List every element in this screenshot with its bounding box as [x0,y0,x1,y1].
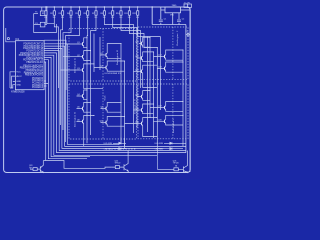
svg-text:Q11: Q11 [135,42,138,44]
svg-text:TIP120: TIP120 [173,163,179,165]
svg-text:TIP120: TIP120 [115,163,121,165]
svg-text:LED GRN: LED GRN [155,143,164,145]
svg-text:J1 +9V: J1 +9V [184,2,191,4]
svg-text:LED RED: LED RED [155,149,164,151]
svg-text:LED RED: LED RED [104,149,113,151]
svg-text:C4: C4 [186,31,188,33]
svg-text:Sink: Sink [104,95,106,101]
svg-text:Darlington C: Darlington C [176,30,179,45]
svg-text:C1: C1 [164,19,166,21]
svg-text:PB5/SCK/PCINT5: PB5/SCK/PCINT5 [25,75,44,77]
svg-text:ATMEGA328: ATMEGA328 [11,91,25,94]
svg-text:PC4/ADC4: PC4/ADC4 [32,86,44,89]
svg-text:Darlington B: Darlington B [116,50,119,65]
svg-text:VCC: VCC [16,72,21,74]
svg-text:LED GRN: LED GRN [104,143,113,145]
svg-text:GND: GND [16,81,21,83]
svg-text:ULN2803AN 8X: ULN2803AN 8X [105,72,122,75]
svg-text:7805: 7805 [172,5,178,7]
svg-text:Darlington D: Darlington D [74,112,77,127]
svg-text:GND: GND [16,84,21,86]
svg-text:Darlington E: Darlington E [134,99,137,114]
svg-text:IC1: IC1 [16,38,20,41]
svg-text:Darlington A: Darlington A [74,58,77,73]
svg-text:VR1: VR1 [170,15,174,17]
svg-text:PB0/ICP1/CLKO: PB0/ICP1/CLKO [26,62,43,64]
svg-text:AVCC: AVCC [16,75,22,78]
svg-text:C2: C2 [182,19,184,21]
